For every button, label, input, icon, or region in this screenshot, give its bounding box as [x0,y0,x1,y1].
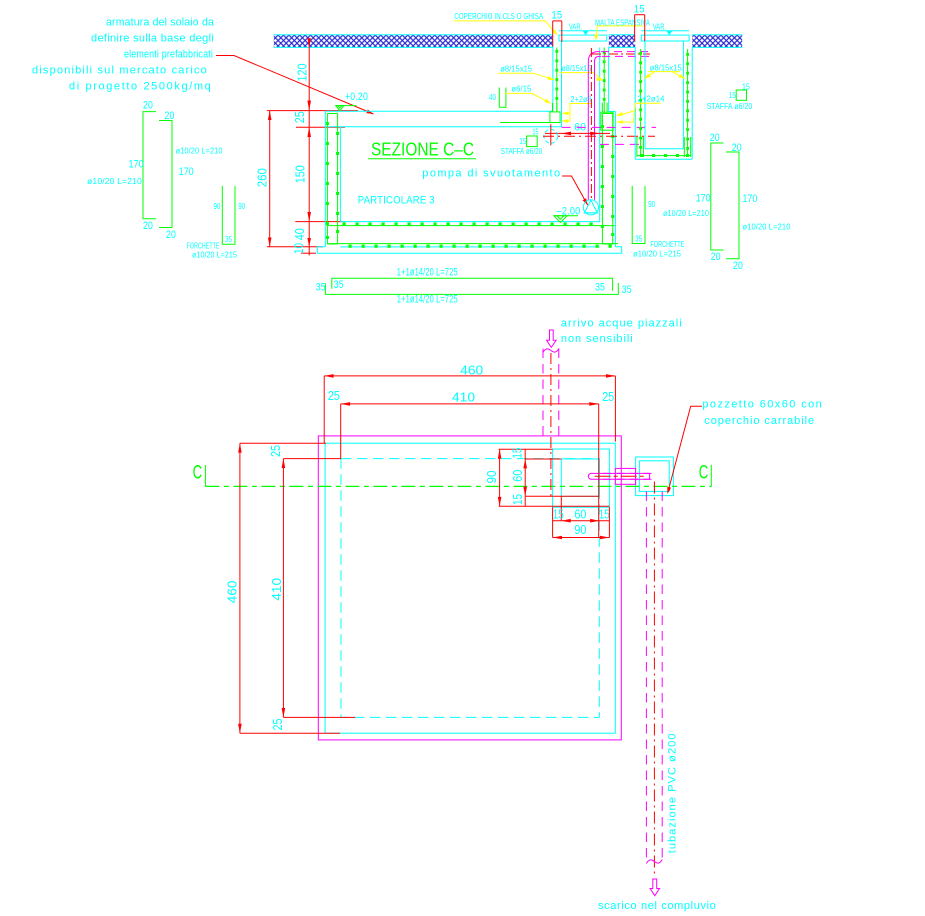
svg-text:20: 20 [143,220,153,232]
svg-text:170: 170 [743,193,758,205]
dimension 90 compartment bottom [553,507,610,539]
dimension 460 top [324,363,615,443]
pipe slot centerline [595,475,646,477]
svg-text:15: 15 [511,448,525,459]
cover plate left [559,35,607,41]
label phi8/15x15 middle [560,64,604,81]
svg-text:20: 20 [711,251,721,263]
svg-text:60: 60 [574,507,586,521]
bottom bar 1 [332,266,613,293]
dimension 460 left [225,443,340,733]
svg-text:non sensibili: non sensibili [561,333,633,345]
svg-text:ø10/20 L=210: ø10/20 L=210 [663,209,709,218]
svg-text:25: 25 [271,718,285,730]
shaft wall A [553,41,562,127]
svg-text:20: 20 [733,260,743,272]
plan outer cyan box [325,443,615,733]
forchetta right [632,186,684,259]
tank left wall [325,111,340,247]
leader pompa [562,176,588,205]
rebar right wall [601,114,614,245]
svg-text:pozzetto 60x60 con: pozzetto 60x60 con [702,398,822,410]
svg-text:ø8/15x15: ø8/15x15 [650,63,682,72]
dimension 60 opening [545,121,610,135]
magenta hidden pipe lower [600,143,645,145]
red pipe centerline [543,135,655,137]
svg-text:20: 20 [710,132,720,144]
svg-text:150: 150 [294,165,308,183]
VAR right [641,23,689,36]
label 2+2phi14 [616,94,665,124]
svg-text:35: 35 [595,282,605,294]
svg-text:90: 90 [214,202,221,211]
svg-text:PARTICOLARE 3: PARTICOLARE 3 [358,195,435,207]
dimension 90 compartment left [485,449,609,506]
svg-text:25: 25 [293,111,307,123]
svg-text:170: 170 [179,166,194,178]
pipe sleeve magenta [615,468,635,484]
level +0.20 [335,91,368,111]
inlet pipe break symbol [543,349,559,353]
svg-text:15: 15 [634,4,645,16]
svg-text:VAR.: VAR. [653,23,667,32]
svg-text:170: 170 [129,158,144,170]
svg-text:di progetto 2500kg/mq: di progetto 2500kg/mq [69,81,211,93]
title SEZIONE C-C [368,140,476,160]
dimension 25 wall slab [267,111,358,222]
tank interior bottom [340,221,599,223]
svg-text:15: 15 [519,137,526,146]
inlet flow arrow [547,330,557,347]
leader malta [595,26,644,41]
magenta pipe dashes through wall [603,473,657,479]
compartment outer box [553,449,610,507]
pozzetto wall C [635,41,645,159]
rebar wall A [555,48,558,112]
svg-text:460: 460 [225,580,239,603]
dimension 15-60-15 compartment left chain [511,448,599,507]
svg-text:410: 410 [452,391,475,405]
outlet pipe break symbol [646,860,662,864]
inlet pipe dashed [543,349,559,498]
svg-text:260: 260 [256,168,270,187]
svg-text:90: 90 [238,202,245,211]
svg-text:410: 410 [270,578,284,601]
svg-text:SEZIONE C–C: SEZIONE C–C [371,140,474,160]
svg-text:pompa di svuotamento: pompa di svuotamento [422,168,560,180]
rebar bracket left outer [87,99,156,232]
svg-text:20: 20 [165,110,175,122]
svg-text:35: 35 [316,281,326,293]
svg-text:15: 15 [511,494,525,505]
svg-text:coperchio carrabile: coperchio carrabile [704,415,814,427]
rebar bracket left inner [159,110,223,241]
pipe section circle [544,124,558,145]
ground hatch band left [274,35,553,48]
svg-text:definire sulla base degli: definire sulla base degli [91,33,214,45]
svg-text:disponibili sul mercato carico: disponibili sul mercato carico [32,65,207,77]
svg-text:460: 460 [460,363,483,377]
svg-text:scarico nel compluvio: scarico nel compluvio [598,900,716,912]
svg-text:20: 20 [732,142,742,154]
dimension 260 [256,111,272,247]
section line C-C [193,463,712,487]
tank base plate [317,247,621,253]
svg-text:25: 25 [602,390,614,404]
svg-text:20: 20 [143,99,153,111]
svg-text:1+1ø14/20 L=725: 1+1ø14/20 L=725 [397,266,458,278]
dimension 10 [292,243,316,254]
tank right wall [600,111,616,246]
svg-text:armatura del solaio da: armatura del solaio da [106,17,215,29]
svg-text:STAFFA ø6/20: STAFFA ø6/20 [707,102,753,111]
label pozzetto 60x60 [702,398,822,427]
svg-text:120: 120 [296,63,310,81]
svg-text:ø6/15: ø6/15 [511,84,531,93]
svg-text:ø10/20 L=215: ø10/20 L=215 [192,250,237,259]
label phi8/15x15 right [644,63,686,79]
dimension 15 wall A [551,10,562,47]
svg-text:15: 15 [599,507,610,521]
dimension 15 wall C [634,4,645,41]
svg-text:35: 35 [225,235,232,244]
compartment inner box [561,459,599,496]
ground hatch band middle [609,35,635,48]
cover plate right [641,35,689,41]
forchetta 40 at slab [489,88,506,108]
magenta hidden pipe upper [562,126,656,128]
stirrup wall B [601,103,613,131]
svg-text:elementi prefabbricati: elementi prefabbricati [124,49,213,61]
svg-text:15: 15 [742,83,750,92]
svg-text:COPERCHIO IN CLS O GHISA: COPERCHIO IN CLS O GHISA [454,12,543,21]
svg-text:1+1ø14/20 L=725: 1+1ø14/20 L=725 [397,294,458,306]
rebar floor top [327,223,615,226]
plan outer magenta box [318,436,621,740]
svg-text:35: 35 [334,279,344,291]
svg-text:20: 20 [166,229,176,241]
svg-text:arrivo acque piazzali: arrivo acque piazzali [561,318,682,330]
svg-text:FORCHETTE: FORCHETTE [650,240,684,249]
svg-text:15: 15 [533,127,539,136]
svg-text:35: 35 [635,235,642,244]
plan inner dashed box [341,459,599,718]
staffa detail left [501,127,543,156]
svg-text:90: 90 [648,200,655,209]
dimension 410 top [328,389,614,538]
svg-text:STAFFA ø6/20: STAFFA ø6/20 [501,147,543,156]
leader pozzetto [667,406,702,494]
svg-text:ø10/20 L=210: ø10/20 L=210 [87,177,142,186]
outlet flow arrow [650,879,660,896]
svg-text:VAR.: VAR. [569,23,583,32]
label phi6/15 [505,84,552,103]
svg-text:40: 40 [293,228,307,240]
slab edge rebar [500,122,553,124]
rebar floor bottom [327,244,618,248]
svg-text:tubazione PVC ø200: tubazione PVC ø200 [667,733,679,853]
svg-text:C: C [193,463,203,484]
dimension 120 [296,38,312,111]
svg-text:+0.20: +0.20 [345,91,368,103]
svg-text:25: 25 [269,445,283,457]
svg-text:90: 90 [574,523,586,537]
leader armatura [216,56,374,115]
VAR left [559,23,607,36]
pump P [583,200,598,215]
staffa detail right [707,83,753,111]
svg-text:90: 90 [485,470,499,483]
pozzetto outer box [636,457,674,496]
label 2+2phi8 [561,95,592,123]
rebar left wall [326,114,339,245]
dimension 15-60-15 compartment bottom [553,496,610,537]
svg-text:40: 40 [489,93,496,102]
label arrivo acque [561,318,682,346]
svg-text:C: C [699,463,709,484]
pozzetto bottom slab [635,137,692,159]
svg-text:60: 60 [511,470,525,482]
tank slab top [325,111,561,127]
label phi8/15x15 left [498,65,555,80]
rebar wall D [686,49,689,156]
dimension 40 [267,222,323,256]
svg-text:ø8/15x15: ø8/15x15 [500,65,532,74]
pozzetto wall D [683,41,692,159]
svg-text:ø8/15x15: ø8/15x15 [562,64,592,73]
svg-text:15: 15 [553,508,564,522]
svg-text:ø10/20 L=210: ø10/20 L=210 [176,147,223,156]
svg-text:15: 15 [729,91,736,100]
dimension 150 [294,165,346,221]
bottom bar 2 [316,281,632,305]
leader coperchio [454,21,558,35]
shaft wall B [600,47,609,111]
note armatura del solaio [32,17,215,93]
stirrup wall A [550,103,560,123]
dimension 410 left [269,445,355,731]
rebar wall C [639,49,642,156]
svg-text:15: 15 [551,10,562,22]
outlet pipe dashed [646,482,662,875]
svg-text:ø10/20 L=210: ø10/20 L=210 [743,223,791,232]
svg-text:2+2ø14: 2+2ø14 [638,94,665,103]
forchetta left [187,186,246,259]
ground hatch band right [692,35,742,48]
rebar bracket right inner [726,142,791,272]
svg-text:10: 10 [292,243,306,254]
svg-text:ø10/20 L=215: ø10/20 L=215 [633,250,681,259]
level -2.00 [554,206,581,223]
rebar bracket right outer [663,132,724,263]
svg-text:25: 25 [328,389,340,403]
rebar wall B [603,48,606,114]
pipe elbow and riser [588,48,650,200]
svg-text:35: 35 [622,284,632,296]
pipe slot plan [588,473,649,479]
pozzetto inner box [639,461,669,492]
svg-text:170: 170 [696,193,711,205]
